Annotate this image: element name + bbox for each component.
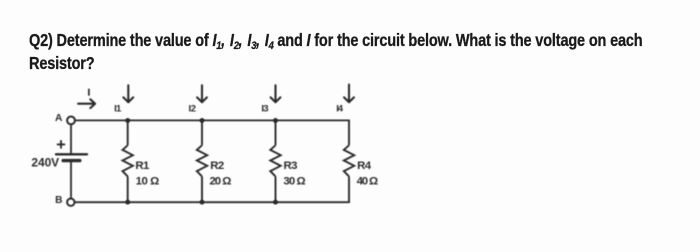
svg-text:I4: I4 [336, 103, 343, 114]
svg-text:30 Ω: 30 Ω [283, 175, 305, 187]
svg-text:10 Ω: 10 Ω [136, 175, 160, 187]
svg-text:I1: I1 [114, 103, 122, 114]
svg-text:R1: R1 [135, 160, 150, 172]
svg-text:40 Ω: 40 Ω [357, 175, 379, 187]
svg-text:B: B [55, 195, 62, 206]
svg-text:240V: 240V [31, 156, 59, 170]
svg-text:R3: R3 [284, 160, 298, 172]
svg-text:A: A [55, 113, 63, 124]
svg-text:20 Ω: 20 Ω [210, 175, 232, 187]
svg-text:I3: I3 [261, 103, 268, 114]
svg-text:R4: R4 [357, 160, 372, 172]
svg-text:R2: R2 [210, 160, 224, 172]
svg-text:I2: I2 [189, 103, 197, 114]
